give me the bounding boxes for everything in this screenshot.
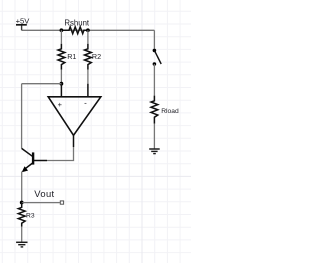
wire: switch to Rload: [153, 64, 155, 96]
wire: emitter down to Vout node: [21, 172, 23, 203]
svg-text:R3: R3: [26, 213, 35, 220]
wire: R2 to op-amp - input: [87, 70, 89, 84]
ground (right): [149, 149, 160, 154]
transistor Q1: [22, 148, 47, 172]
wire: left rail down to R1: [60, 30, 62, 43]
resistor Rshunt: [61, 19, 90, 34]
wire: op-amp output down to base lead: [47, 147, 74, 161]
resistor Rload: [151, 96, 179, 124]
wire: Rload to ground: [153, 124, 155, 149]
wire: R3 to ground: [21, 227, 23, 242]
wire: top rail from +5V to switch: [22, 29, 155, 31]
svg-text:+: +: [58, 100, 62, 109]
wire: feedback from + node left: [22, 83, 62, 85]
resistor R1: [58, 44, 76, 70]
svg-text:+5V: +5V: [16, 17, 31, 26]
switch S1: [153, 49, 162, 66]
op-amp U1: [48, 84, 101, 147]
wire: Vout node to port: [22, 202, 60, 204]
svg-text:Rload: Rload: [161, 108, 179, 115]
node: junction dot at + input / feedback: [60, 82, 64, 86]
port Vout: [34, 188, 63, 204]
wire: right rail down to R2: [87, 30, 89, 43]
svg-text:-: -: [84, 98, 87, 107]
wire: top rail corner down to switch: [153, 30, 155, 48]
svg-text:R2: R2: [92, 52, 101, 61]
power terminal +5V: [16, 17, 31, 31]
resistor R2: [85, 44, 102, 70]
wire: feedback down to transistor collector: [21, 84, 23, 149]
node: junction dot left of Rshunt: [60, 28, 64, 32]
node: Vout junction dot: [20, 201, 24, 205]
svg-text:Vout: Vout: [34, 188, 54, 199]
wire: R1 to op-amp + node: [60, 70, 62, 84]
node: junction dot right of Rshunt: [86, 28, 90, 32]
ground (left): [16, 242, 27, 247]
svg-text:Rshunt: Rshunt: [64, 19, 90, 28]
resistor R3: [18, 203, 35, 227]
svg-text:R1: R1: [67, 52, 76, 61]
